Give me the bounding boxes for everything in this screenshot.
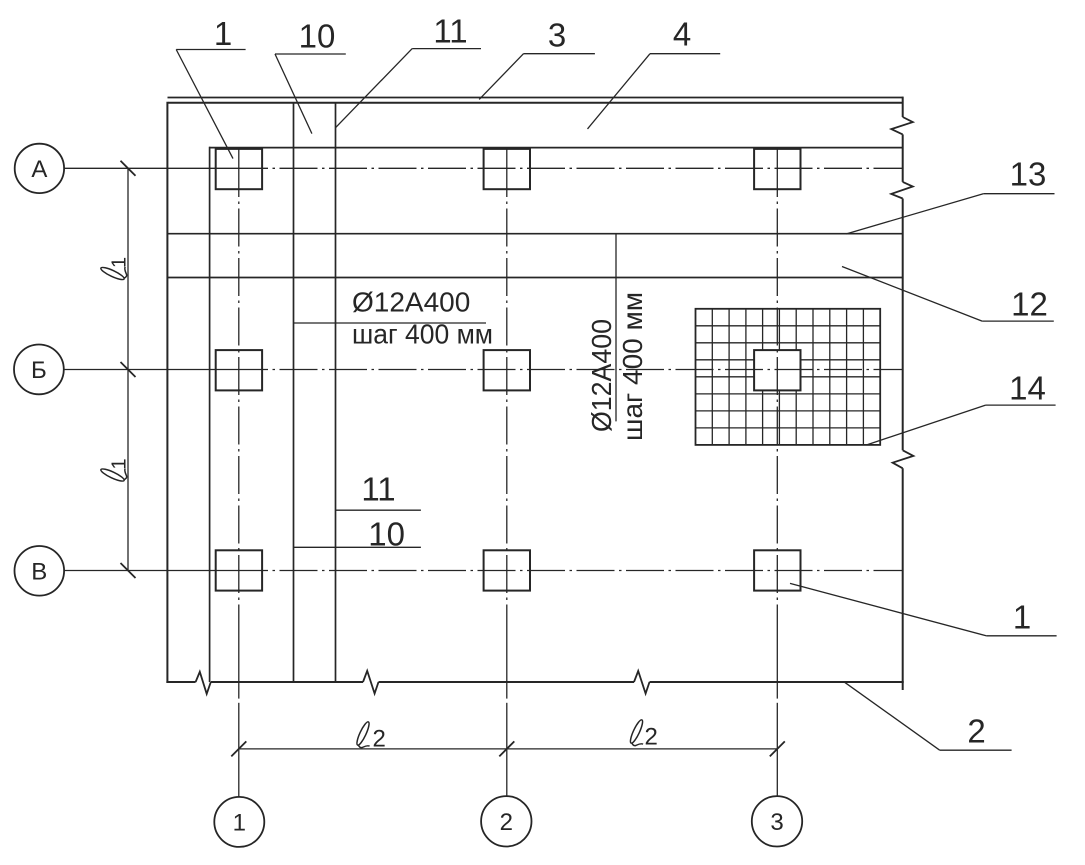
annotation underline horizontal bbox=[293, 322, 486, 324]
callout 13 bbox=[983, 193, 1054, 195]
tick at axis A bbox=[121, 161, 136, 176]
svg-text:Ø12A400: Ø12A400 bbox=[586, 319, 617, 432]
tick at axis V bbox=[121, 563, 136, 578]
annotation underline vertical bbox=[615, 234, 617, 421]
axis 1 line bbox=[238, 148, 240, 197]
svg-text:А: А bbox=[31, 156, 47, 183]
svg-text:2: 2 bbox=[967, 713, 985, 750]
axis circle A bbox=[15, 144, 64, 193]
inner offset horizontal line (top reinforcement zone boundary) bbox=[209, 147, 903, 149]
callout 4 bbox=[650, 53, 720, 55]
axis circle B bbox=[14, 345, 64, 395]
callout 3 bbox=[524, 53, 595, 55]
tick at axis 1 bbox=[231, 741, 246, 756]
svg-text:1: 1 bbox=[1013, 599, 1031, 636]
annotation text horizontal bbox=[352, 287, 493, 350]
axis circle 2 bbox=[481, 796, 531, 846]
svg-text:10: 10 bbox=[299, 18, 336, 55]
slab right edge with break gaps bbox=[902, 97, 904, 117]
svg-text:3: 3 bbox=[548, 17, 566, 54]
tick at axis B bbox=[121, 362, 136, 377]
callout leaders bbox=[176, 49, 1056, 751]
axis A line bbox=[64, 167, 268, 169]
svg-text:1: 1 bbox=[109, 257, 131, 268]
dimension lines bbox=[121, 161, 785, 757]
slab bottom edge (2) with break gaps bbox=[166, 681, 195, 683]
svg-text:13: 13 bbox=[1010, 156, 1047, 193]
axis V line bbox=[64, 570, 268, 572]
svg-text:10: 10 bbox=[368, 516, 405, 553]
break symbol right edge 3 bbox=[893, 450, 914, 468]
break symbol bottom edge 3 bbox=[634, 671, 650, 694]
svg-text:11: 11 bbox=[433, 13, 467, 50]
svg-text:Ø12A400: Ø12A400 bbox=[352, 287, 470, 318]
tick at axis 2 bbox=[499, 741, 514, 756]
callout 14 bbox=[986, 404, 1056, 406]
svg-text:2: 2 bbox=[373, 726, 386, 753]
svg-text:4: 4 bbox=[673, 16, 691, 53]
inner offset vertical line (left reinforcement zone boundary) bbox=[209, 147, 211, 682]
svg-text:14: 14 bbox=[1009, 370, 1046, 407]
dimension label l2 right bbox=[628, 719, 657, 751]
callout 2 bottom right bbox=[940, 749, 1012, 751]
svg-text:В: В bbox=[31, 558, 47, 585]
break symbol bottom edge 1 bbox=[196, 672, 211, 694]
column A1 bbox=[216, 149, 262, 189]
svg-text:2: 2 bbox=[645, 724, 658, 751]
axis circle 1 bbox=[214, 797, 264, 847]
break symbol right edge 1 bbox=[891, 117, 913, 134]
svg-text:1: 1 bbox=[109, 458, 131, 469]
svg-text:12: 12 bbox=[1011, 286, 1048, 323]
callout 10 middle underline bbox=[294, 546, 421, 548]
callout 10 top bbox=[275, 53, 346, 55]
horizontal strip line top (13) bbox=[167, 233, 902, 235]
axis B line bbox=[64, 369, 268, 371]
svg-text:шаг 400 мм: шаг 400 мм bbox=[352, 319, 493, 350]
vertical strip line right (11) bbox=[335, 103, 337, 682]
slab top edge upper line (3) bbox=[168, 97, 904, 99]
axis circle letters bbox=[31, 156, 784, 837]
vertical strip line left (10 band) bbox=[293, 103, 295, 682]
dimension label l2 left bbox=[355, 721, 386, 753]
callout 11 middle underline bbox=[335, 509, 421, 511]
annotation text vertical (rotated) bbox=[586, 292, 648, 441]
callout number labels bbox=[214, 13, 1048, 750]
slab left edge bbox=[166, 102, 168, 683]
svg-text:1: 1 bbox=[233, 810, 246, 837]
dimension line l2 bbox=[239, 748, 778, 750]
axis 3 line bbox=[776, 148, 778, 197]
svg-text:3: 3 bbox=[770, 809, 783, 836]
column V2 bbox=[484, 550, 530, 590]
column B1 bbox=[216, 350, 262, 390]
columns 1 (9 squares) bbox=[216, 149, 801, 591]
callout 1 bottom right bbox=[986, 635, 1056, 637]
break symbol right edge 2 bbox=[891, 182, 913, 199]
column A3 bbox=[754, 149, 800, 189]
svg-text:1: 1 bbox=[214, 15, 232, 52]
column V1 bbox=[216, 550, 262, 590]
axis center lines dash-dot bbox=[64, 148, 903, 797]
dimension label l1 lower bbox=[100, 458, 131, 483]
svg-text:шаг 400 мм: шаг 400 мм bbox=[617, 292, 648, 441]
column A2 bbox=[484, 149, 530, 189]
axis circle V bbox=[15, 546, 65, 596]
axis circles bbox=[14, 144, 802, 847]
axis 2 line bbox=[506, 148, 508, 197]
svg-text:11: 11 bbox=[361, 471, 395, 508]
svg-text:Б: Б bbox=[31, 357, 47, 384]
reinforcement mesh 14 bbox=[696, 309, 881, 445]
callout 1 top: underline and leader bbox=[176, 49, 245, 51]
axis circle 3 bbox=[752, 796, 802, 846]
callout 11 top bbox=[412, 48, 481, 50]
tick at axis 3 bbox=[770, 741, 785, 756]
dimension label l1 upper bbox=[100, 257, 131, 282]
column V3 bbox=[754, 550, 800, 590]
svg-text:2: 2 bbox=[500, 809, 513, 836]
horizontal strip line bottom (12) bbox=[167, 277, 902, 279]
break symbol bottom edge 2 bbox=[363, 671, 379, 694]
column B2 bbox=[484, 350, 530, 390]
column B3 bbox=[754, 350, 800, 390]
dimension line l1 bbox=[127, 168, 129, 570]
slab top edge lower line bbox=[168, 102, 903, 104]
callout 12 bbox=[982, 320, 1054, 322]
